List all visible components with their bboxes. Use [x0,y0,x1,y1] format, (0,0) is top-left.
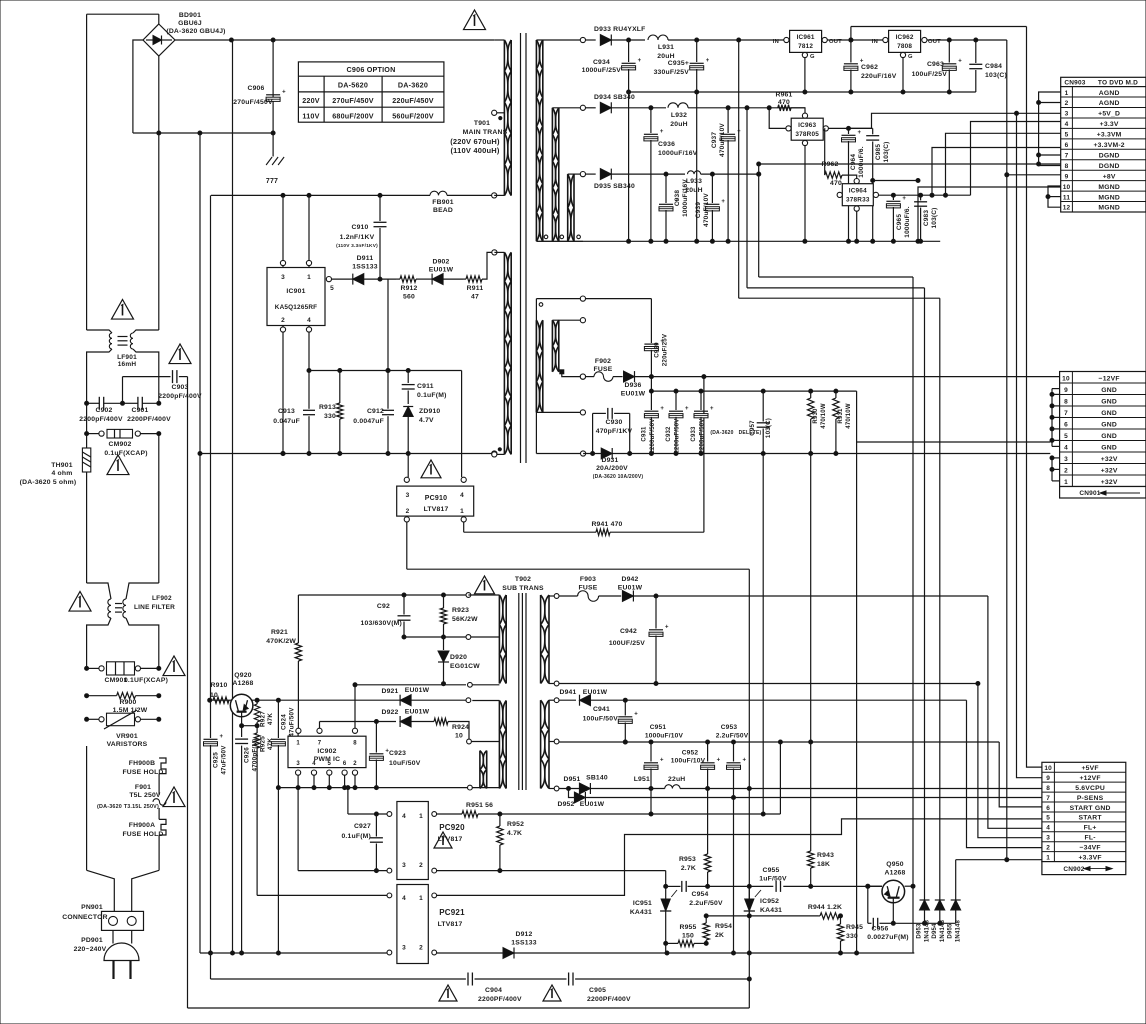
capacitor C956 [866,884,909,941]
capacitor C952 [671,742,721,788]
svg-text:+: + [721,199,725,205]
svg-text:IN: IN [773,39,779,45]
svg-text:9: 9 [1046,775,1050,782]
inductor L931 [627,35,787,60]
svg-text:5: 5 [1064,433,1068,440]
IC901 pin 5 lead [326,277,350,282]
svg-text:560uF/200V: 560uF/200V [392,111,434,120]
capacitor C924 [271,700,295,955]
connector PN901 [62,904,143,930]
rail +32V y=453.5 east [583,452,1050,456]
svg-text:1: 1 [460,508,464,515]
wire bus x=187.5 (C903 right leg) [187,377,189,1008]
diode D902 [427,259,463,285]
svg-text:C906: C906 [247,85,264,92]
svg-text:IN: IN [872,39,878,45]
svg-text:R953: R953 [679,856,696,863]
wire bus x=758.7 [757,164,761,277]
svg-text:7808: 7808 [897,43,912,50]
svg-text:+: + [958,59,962,65]
diode D951 [563,775,607,795]
svg-text:1SS133: 1SS133 [511,940,536,947]
warning triangle C905 [543,985,561,1001]
svg-text:7: 7 [1046,795,1050,802]
svg-text:C932: C932 [666,426,672,442]
transformer T902 primary lower [471,701,506,789]
svg-text:+32V: +32V [1101,467,1118,474]
capacitor C923 [369,720,420,788]
fuse F902 [580,358,613,381]
CN901 +32V stub bus [1050,456,1060,481]
svg-text:PN901: PN901 [81,904,103,911]
diode D921 [381,687,429,706]
capacitor C911 [402,371,447,405]
svg-text:L932: L932 [671,112,687,119]
svg-text:C901: C901 [131,407,148,414]
svg-text:F903: F903 [580,576,596,583]
svg-text:0.047uF: 0.047uF [273,418,300,425]
svg-text:4.7K: 4.7K [507,830,522,837]
wire IC951 feed riser [664,871,668,899]
svg-text:2200pF/400V: 2200pF/400V [158,393,202,400]
svg-text:3: 3 [281,274,285,281]
svg-text:2: 2 [1065,100,1069,107]
resistor R913 [319,371,343,456]
T901 labels [450,120,507,155]
svg-text:AGND: AGND [1099,100,1120,107]
svg-text:470: 470 [830,180,842,187]
svg-text:D955: D955 [948,923,954,939]
svg-text:D921: D921 [381,688,398,695]
svg-text:378R33: 378R33 [846,197,870,204]
svg-text:1uF/50V: 1uF/50V [759,876,787,883]
transformer T901 secondary winding 3 [568,174,583,241]
svg-text:FH900A: FH900A [129,822,156,829]
svg-text:+32V: +32V [1101,479,1118,486]
fuse F903 [559,576,621,601]
svg-text:+: + [710,406,714,412]
svg-text:L951: L951 [634,776,650,783]
svg-text:R910: R910 [210,682,227,689]
svg-text:T901: T901 [474,120,490,127]
wire IC962 out to bus [927,38,1007,42]
svg-text:1N4148: 1N4148 [940,919,946,942]
svg-text:C924: C924 [281,714,288,730]
node AC rail y=133 [133,131,275,135]
wire START jog [437,819,1042,896]
svg-text:C983: C983 [923,210,930,227]
wire +3.3V feed pin4 [971,122,1061,196]
wire PC921 pin2 out / D912 rail [437,931,915,959]
svg-text:D953: D953 [917,923,923,939]
label C954 [689,891,723,907]
warning triangle near LF902 [69,592,91,612]
svg-text:2: 2 [406,508,410,515]
svg-text:+3.3V: +3.3V [1100,121,1119,128]
svg-text:C934: C934 [593,59,610,66]
svg-text:CN901: CN901 [1079,490,1100,497]
svg-text:470/10W: 470/10W [821,403,827,429]
wire bus x=1006.8 (12V out) [1006,40,1008,860]
transformer T901 primary winding [492,40,512,196]
svg-text:6: 6 [1064,421,1068,428]
T901 secondary bottom [536,235,583,241]
plug PD901 [74,930,139,979]
svg-text:0.1UF(XCAP): 0.1UF(XCAP) [124,677,168,684]
diode D933 [594,26,646,46]
svg-text:KA431: KA431 [760,907,782,914]
resistor R912 [396,276,427,301]
svg-text:R924: R924 [452,724,469,731]
resistor R925 [254,726,274,896]
svg-text:KA5Q1265RF: KA5Q1265RF [275,304,318,311]
svg-text:GND: GND [1101,387,1117,394]
svg-text:1: 1 [1046,854,1050,861]
diode D922 [381,709,429,728]
IC902 bottom pins [296,770,358,871]
svg-text:1N4148: 1N4148 [925,919,931,942]
svg-text:150: 150 [682,933,694,940]
svg-text:C930: C930 [605,419,622,426]
transformer T902 core [519,593,526,790]
svg-text:GND: GND [1101,398,1117,405]
svg-text:FB901: FB901 [432,199,453,206]
svg-text:(DA-3620 5 ohm): (DA-3620 5 ohm) [20,479,77,486]
svg-text:+: + [743,758,747,764]
svg-text:10: 10 [210,692,218,699]
regulator IC963 [769,108,828,146]
capacitor C936 [644,108,698,244]
svg-text:C941: C941 [593,706,610,713]
svg-text:220uF/450V: 220uF/450V [392,96,434,105]
wire IC964 out y=195.2 [879,193,971,197]
resistor R911 [463,250,497,301]
svg-text:20uH: 20uH [670,121,687,128]
capacitor C942 [609,596,669,686]
capacitor C965 [886,195,911,241]
svg-text:9: 9 [1065,173,1069,180]
svg-text:+: + [660,129,664,135]
svg-text:LF901: LF901 [117,354,137,361]
wire bus x=913 down [912,277,914,886]
svg-text:100uF/50V: 100uF/50V [583,716,619,723]
svg-text:20uH: 20uH [657,53,674,60]
svg-text:C954: C954 [691,891,708,898]
svg-text:5: 5 [328,761,332,767]
capacitor C901 [123,397,172,423]
T901 secondary pins [580,37,585,176]
svg-text:VR901: VR901 [116,733,138,740]
capacitor C933 [691,391,762,453]
svg-text:KA431: KA431 [630,909,652,916]
wire riser x=749.3 [748,569,750,1008]
svg-text:220V: 220V [302,96,320,105]
wire y=683.5 east [559,682,980,686]
capacitor C953 [716,724,749,798]
wire bus x=1026.5 (+5VF) [1027,27,1042,768]
svg-text:Q950: Q950 [886,861,903,868]
warning triangle above T901 [464,10,486,30]
svg-text:2: 2 [1046,844,1050,851]
svg-text:103/630V(M): 103/630V(M) [361,620,403,627]
capacitor CM902 X-cap [85,429,161,457]
svg-text:LINE FILTER: LINE FILTER [134,604,175,611]
wire PC920 pin3 feed [298,870,387,872]
capacitor C913 [273,371,315,456]
svg-text:(110V 400uH): (110V 400uH) [450,146,499,155]
svg-text:+: + [858,130,862,136]
svg-text:VARISTORS: VARISTORS [107,741,148,748]
svg-text:EU01W: EU01W [580,801,605,808]
wire PC921 pin4 feed [257,894,387,896]
svg-text:R923: R923 [452,607,469,614]
capacitor C939 [695,174,725,243]
svg-text:4: 4 [402,895,406,902]
resistor R927 [254,698,274,727]
svg-text:C985: C985 [875,144,882,161]
svg-text:+: + [660,406,664,412]
wire emitter rail east y=923.3 [893,921,955,925]
warning triangle below CM902 [107,455,129,475]
resistor R941 [464,521,704,535]
svg-text:7812: 7812 [798,43,813,50]
svg-text:C984: C984 [985,63,1002,70]
IC902 pin8 lead [352,683,357,734]
wire BD901 + output to T901 [175,38,494,42]
capacitor C912 [353,279,394,455]
svg-text:(110V 3.3nF/1KV): (110V 3.3nF/1KV) [336,243,378,249]
rail bottom y=1008 [188,1007,750,1009]
svg-text:470/10W: 470/10W [846,403,852,429]
wire ref rail y=886.4 [666,881,882,892]
svg-text:TO DVD M.D: TO DVD M.D [1098,80,1138,87]
wire +3.3VM-2 feed pin6 [932,148,1061,196]
svg-text:R931: R931 [838,408,844,424]
svg-text:TH901: TH901 [51,462,72,469]
svg-text:270uF/450V: 270uF/450V [332,96,374,105]
svg-text:(DA-3620 GBU4J): (DA-3620 GBU4J) [166,28,225,35]
optocoupler PC921 [387,885,465,964]
svg-text:F901: F901 [135,784,151,791]
svg-text:BD901: BD901 [179,12,201,19]
rail primary GND y=453.5 [200,451,497,456]
svg-text:LTV817: LTV817 [424,506,449,513]
wire PC921 pin3 feed [200,952,387,954]
IC902 pin7 lead [317,722,322,734]
svg-text:+3.3VM-2: +3.3VM-2 [1094,142,1125,149]
svg-text:C906 OPTION: C906 OPTION [347,65,396,74]
svg-text:47: 47 [471,294,479,301]
inductor L932 [649,103,805,128]
svg-text:1: 1 [307,274,311,281]
svg-text:G: G [810,54,815,60]
svg-text:100uF/10V: 100uF/10V [671,758,706,765]
shunt reg IC951 KA431 [630,890,677,953]
svg-text:+: + [717,758,721,764]
diode D936 [613,371,1061,397]
rail T902 top y=595 [298,593,470,598]
wire staircase y=287.9 [747,287,925,289]
svg-text:2.7K: 2.7K [681,865,696,872]
svg-text:D942: D942 [621,576,638,583]
svg-text:2K: 2K [715,932,724,939]
svg-text:+12VF: +12VF [1079,775,1100,782]
svg-text:7: 7 [1065,152,1069,159]
transistor Q920 A1268 [230,672,259,728]
rail P-SENS y=797.5 [557,789,1041,809]
regulator IC961 [773,30,842,60]
svg-text:R944 1.2K: R944 1.2K [808,904,842,911]
svg-text:D912: D912 [515,931,532,938]
svg-text:2.2uF/50V: 2.2uF/50V [689,900,723,907]
svg-text:A1268: A1268 [884,870,905,877]
shunt reg IC952 KA431 [744,886,782,918]
svg-text:2200PF/400V: 2200PF/400V [478,996,522,1003]
svg-text:IC952: IC952 [760,898,779,905]
line filter LF902 [87,583,176,668]
svg-text:8: 8 [1046,785,1050,792]
svg-text:FUSE: FUSE [579,585,598,592]
capacitor CM901 X-cap [85,662,168,684]
svg-text:C929: C929 [654,342,661,358]
IC901 pin 3 lead [280,195,285,267]
svg-text:DGND: DGND [1099,152,1120,159]
svg-text:GND: GND [1101,433,1117,440]
svg-text:2: 2 [281,317,285,324]
wire D922 y=721.5 [320,721,397,723]
regulator IC964 [837,184,878,212]
wire +8V feed pin9 [1005,173,1061,177]
rail 5.6V y=788.5 east [559,785,1042,791]
wire IC961 out [827,38,885,42]
inductor L933 [664,171,761,194]
svg-text:D920: D920 [450,654,467,661]
svg-text:103(C): 103(C) [931,207,938,228]
svg-text:470: 470 [778,99,790,106]
svg-text:4: 4 [1046,825,1050,832]
wire y=637 [404,635,471,640]
diode D954 [932,298,946,942]
capacitor C903 [123,370,202,403]
capacitor C906 [233,40,286,157]
svg-text:C926: C926 [244,747,251,763]
svg-text:+5VF: +5VF [1081,765,1098,772]
svg-text:BEAD: BEAD [433,207,453,214]
diode D931 [593,448,644,480]
wire Q950 emitter [891,898,895,926]
svg-text:1000uF/10V: 1000uF/10V [645,733,684,740]
svg-text:+5V_D: +5V_D [1098,111,1120,118]
svg-text:C902: C902 [95,407,112,414]
diode D935 [594,169,685,190]
svg-text:IC963: IC963 [798,122,816,129]
svg-text:CN902: CN902 [1063,866,1084,873]
svg-text:+32V: +32V [1101,456,1118,463]
svg-text:D951: D951 [563,776,580,783]
resistor R953 [679,788,711,889]
capacitor C927 [341,814,382,873]
svg-text:1SS133: 1SS133 [352,264,377,271]
svg-text:D941: D941 [559,689,576,696]
svg-text:777: 777 [266,178,278,185]
svg-text:C963: C963 [927,61,944,68]
svg-text:C938: C938 [674,190,681,207]
svg-text:DA-3620: DA-3620 [398,81,428,90]
svg-text:1N4148: 1N4148 [956,919,962,942]
capacitor C937 [711,108,741,244]
svg-text:C939: C939 [695,202,702,219]
svg-text:3: 3 [406,492,410,499]
svg-text:10: 10 [1063,184,1071,191]
warning triangle near CM901 [163,656,185,676]
svg-text:D922: D922 [381,709,398,716]
svg-text:IC901: IC901 [286,288,305,295]
svg-text:LTV817: LTV817 [438,921,463,928]
svg-text:C923: C923 [389,750,406,757]
svg-text:10: 10 [455,733,463,740]
svg-text:+: + [282,90,286,96]
T902 labels [502,576,544,592]
svg-text:9: 9 [1064,387,1068,394]
svg-text:1: 1 [419,895,423,902]
warning triangle near C903 [169,344,191,364]
CN903 pin1-2-7 gnd stub bus [1037,92,1061,166]
svg-text:START: START [1079,815,1103,822]
regulator IC962 [872,30,941,60]
warning triangle near F901 [163,787,185,807]
diode D911 [350,255,396,285]
wire IC961 G [804,58,806,92]
svg-text:C925: C925 [213,752,220,768]
connector CN902 table [1042,762,1126,874]
svg-text:3: 3 [1064,456,1068,463]
transformer T902 secondary upper [541,594,559,686]
svg-text:2: 2 [419,862,423,869]
svg-text:110V: 110V [302,111,319,120]
svg-text:R945: R945 [846,924,863,931]
svg-text:EU01W: EU01W [429,267,454,274]
svg-text:0.1uF(M): 0.1uF(M) [417,392,447,399]
svg-text:100uF/25V: 100uF/25V [912,71,948,78]
ground 777 below C906 [266,157,284,185]
svg-text:2: 2 [1064,467,1068,474]
svg-text:D931: D931 [601,457,618,464]
svg-text:C964: C964 [850,154,857,171]
svg-text:+: + [660,758,664,764]
wire bus x=232.5 from + rail [231,40,235,955]
svg-text:C953: C953 [721,724,738,731]
capacitor C929 [644,299,668,392]
svg-text:56K/2W: 56K/2W [452,616,478,623]
svg-text:C956: C956 [871,926,888,933]
svg-text:2200pF/400V: 2200pF/400V [79,416,123,423]
diode D953 [917,288,931,942]
svg-text:103(C): 103(C) [985,72,1007,79]
wire FL staircase S3 [967,700,1042,847]
svg-text:4: 4 [307,317,311,324]
wire bus x=1016.5 (+12VF) [1017,113,1042,777]
svg-text:ZD910: ZD910 [419,408,440,415]
svg-text:(DA-3620 10A/200V): (DA-3620 10A/200V) [593,474,644,480]
resistor R943 [808,454,835,887]
svg-text:R927: R927 [260,711,267,727]
wire staircase y=298.2 [739,297,940,299]
svg-text:+8V: +8V [1103,173,1116,180]
svg-text:220~240V: 220~240V [74,946,107,953]
svg-text:+: + [685,406,689,412]
wire y=569 link [407,568,750,570]
wire PC910 pin4 riser [461,371,466,483]
